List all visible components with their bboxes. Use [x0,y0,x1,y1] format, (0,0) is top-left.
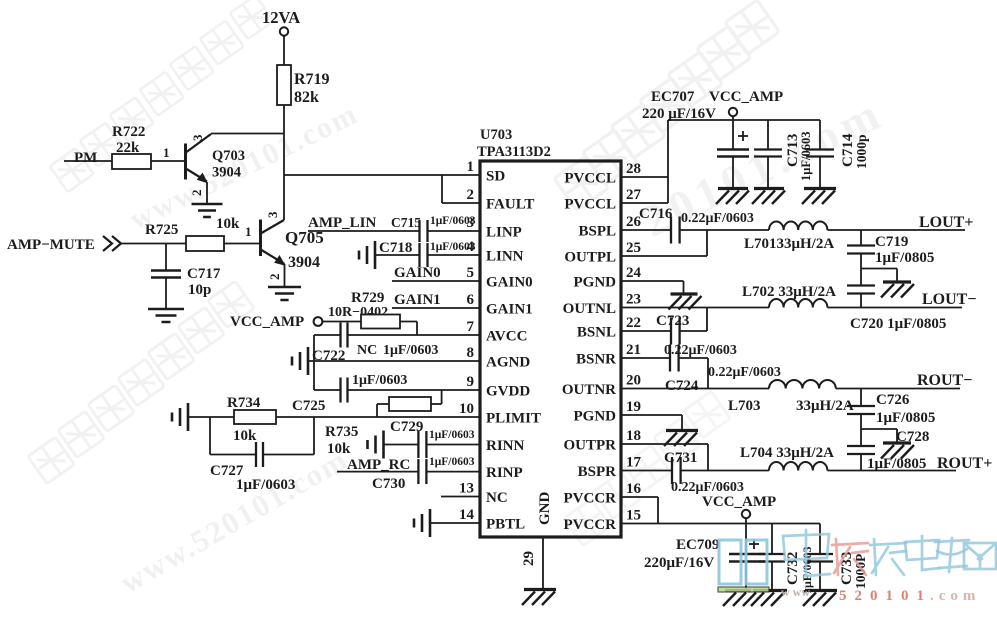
svg-text:VCC_AMP: VCC_AMP [702,494,776,510]
svg-text:C726: C726 [876,392,910,408]
svg-text:PVCCL: PVCCL [564,171,616,187]
svg-text:ROUT−: ROUT− [917,372,972,389]
svg-text:AGND: AGND [486,355,530,371]
svg-text:EC709: EC709 [676,537,719,553]
wire PM to R722 [64,160,112,162]
svg-text:25: 25 [626,240,641,256]
wire BSPL stub [621,229,671,231]
ground pin 29 [522,590,556,606]
wire C729 to RINN [426,444,480,446]
wire R735 right lead [431,403,442,405]
wire R735 left lead [377,404,389,417]
svg-text:PVCCL: PVCCL [564,197,616,213]
wire AMP-MUTE to C717 [165,244,167,271]
wire Q705 emitter to ground [284,264,286,287]
svg-text:1μF/0805: 1μF/0805 [876,410,935,426]
wire AMP_RC to C730 [337,471,418,473]
U703 left pin names [486,169,541,533]
svg-text:GAIN0: GAIN0 [486,275,533,291]
svg-text:0.22μF/0603: 0.22μF/0603 [708,365,781,380]
capacitor C715 [420,220,428,242]
ground C719 C720 [881,282,914,298]
wire collector node to SD [284,174,480,176]
svg-text:28: 28 [626,161,641,177]
svg-text:AMP_RC: AMP_RC [347,457,410,473]
resistor R734 [234,410,276,424]
capacitor C723 [671,318,680,345]
resistor R729 [361,315,400,329]
svg-text:ROUT+: ROUT+ [937,455,992,472]
ground C718 [359,241,375,269]
wire VCC_AMP to R729 [323,321,362,323]
wire C731 to OUTPR [681,470,708,472]
wire BSNR stub [621,357,670,359]
wire Q703 collector [211,133,284,135]
capacitor C724 [670,345,679,372]
svg-text:R734: R734 [227,395,261,411]
svg-text:R725: R725 [145,222,178,238]
wire PBTL [430,522,480,524]
resistor R722 [112,154,151,169]
svg-text:R722: R722 [112,124,145,140]
svg-text:0.22μF/0603: 0.22μF/0603 [671,480,744,495]
wire pin 29 GND [542,537,544,589]
svg-text:PGND: PGND [574,409,617,425]
wire OUTPR stub [621,444,708,471]
ground EC709 [723,591,756,607]
svg-text:13: 13 [459,481,474,497]
ground PLIMIT divider [172,403,188,431]
svg-text:GVDD: GVDD [486,384,530,400]
svg-text:1μF/0603: 1μF/0603 [352,373,407,388]
capacitor C716 [671,217,680,244]
wire C730 to RINP [426,471,480,473]
svg-text:RINP: RINP [486,465,523,481]
svg-text:0.22μF/0603: 0.22μF/0603 [681,211,754,226]
U703 right pin numbers [626,161,642,524]
svg-text:1: 1 [467,159,475,175]
wire left rail [313,335,315,390]
svg-text:w ww: w ww [781,585,810,599]
wire C728 to ROUT+ [860,454,862,471]
wire BSPR stub [621,470,672,472]
svg-text:AMP−MUTE: AMP−MUTE [7,237,95,253]
svg-text:1μF/0603: 1μF/0603 [430,241,476,253]
wire OUTPL to L701 [707,229,769,231]
svg-text:2: 2 [189,190,204,197]
svg-text:C717: C717 [187,266,221,282]
svg-text:22: 22 [626,315,641,331]
ground C733 [803,591,837,607]
resistor R719 [277,65,291,105]
wire BSNL stub [621,330,671,332]
capacitor C731 [672,457,681,484]
svg-text:1μF/0603: 1μF/0603 [383,343,438,358]
capacitor C720 [847,286,875,294]
svg-text:.com: .com [930,588,980,604]
svg-text:2: 2 [267,274,282,281]
wire rail to C722 [314,334,341,336]
wire rail to C713 [767,120,769,149]
ground PBTL [414,509,430,537]
wire GAIN0 [392,280,480,282]
svg-text:C730: C730 [372,476,405,492]
capacitor C717 [151,271,181,278]
wire PGND 24 [621,281,684,293]
wire AMP-MUTE to R725 [120,243,186,245]
transistor Q705 [261,220,285,266]
svg-text:GAIN1: GAIN1 [394,292,441,308]
wire rail to EC707 [732,120,734,149]
wire VCC_AMP terminal stub [732,116,734,120]
ground C729 [368,431,384,459]
capacitor C719 [847,246,875,254]
svg-text:SD: SD [486,169,505,185]
svg-text:LINN: LINN [486,249,524,265]
svg-text:PLIMIT: PLIMIT [486,411,541,427]
svg-text:OUTPR: OUTPR [564,438,617,454]
capacitor C718 [420,243,428,267]
wire C720 to LOUT- [860,294,862,309]
wire AGND [308,360,480,362]
svg-text:33μH/2A: 33μH/2A [796,398,854,414]
wire C727 branch [210,417,314,455]
capacitor C732 [759,554,785,562]
svg-text:L704 33μH/2A: L704 33μH/2A [740,445,834,461]
svg-text:27: 27 [626,187,642,203]
wire Q703 emitter to ground [206,182,208,204]
svg-text:OUTNR: OUTNR [562,382,616,398]
svg-text:PVCCR: PVCCR [564,491,617,507]
svg-text:1μF/0603: 1μF/0603 [429,429,475,441]
svg-text:BSNL: BSNL [577,325,616,341]
svg-text:14: 14 [459,507,475,523]
svg-text:220μF/16V: 220μF/16V [644,555,714,571]
svg-text:5: 5 [467,265,475,281]
U703 right pin names [562,171,616,534]
wire mid node to ground L [861,269,897,282]
node VCC_AMP left terminal [314,317,323,326]
svg-text:21: 21 [626,342,641,358]
capacitor C730 [418,459,426,484]
svg-text:PGND: PGND [574,275,617,291]
svg-text:C719: C719 [875,234,908,250]
svg-text:GAIN0: GAIN0 [394,265,441,281]
svg-text:7: 7 [467,319,475,335]
wire C715 to LINP [428,230,481,232]
wire C726 to mid node R [860,414,862,446]
svg-text:BSPL: BSPL [578,224,616,240]
ground Q705 emitter [268,287,301,300]
wire L701 to LOUT+ [827,229,965,231]
ground C717 [148,309,184,322]
svg-text:10k: 10k [216,216,240,232]
wire LOUT+ to C719 [860,230,862,246]
svg-text:23: 23 [626,292,641,308]
node VCC_AMP bottom terminal [742,510,750,518]
svg-text:6: 6 [467,292,475,308]
svg-text:0.22μF/0603: 0.22μF/0603 [664,343,737,358]
inductor L701 [769,222,827,230]
wire C714 to ground [819,157,821,189]
svg-text:PVCCR: PVCCR [564,517,617,533]
svg-text:VCC_AMP: VCC_AMP [709,89,783,105]
wire C722 to AVCC line [348,334,418,336]
wire pin 13 NC stub [441,496,480,498]
svg-text:3: 3 [265,211,280,218]
wire L704 to ROUT+ [827,470,956,472]
node VCC_AMP top terminal [729,108,737,116]
wire C719 to mid node [860,254,862,286]
wire EC707 to ground [732,157,734,189]
svg-text:GND: GND [537,492,553,526]
U703 left pin numbers [459,159,475,523]
svg-text:12VA: 12VA [262,8,300,27]
capacitor C725 [341,378,348,403]
svg-text:R729: R729 [351,290,384,306]
svg-text:24: 24 [626,265,642,281]
svg-text:C728: C728 [896,429,929,445]
node 12VA terminal [280,27,288,35]
svg-text:220 μF/16V: 220 μF/16V [642,106,716,122]
transistor Q703 [186,134,212,183]
svg-text:3904: 3904 [212,165,241,181]
svg-text:TPA3113D2: TPA3113D2 [477,144,551,160]
wire AMP_LIN to C715 [308,230,420,232]
resistor R725 [186,236,224,251]
inductor L703 [769,380,836,389]
svg-text:3904: 3904 [288,254,320,271]
svg-text:1: 1 [163,145,170,160]
wire R722 to Q703 base [151,160,184,162]
wire C733 to ground [819,562,821,591]
wire R729 to AVCC [400,322,480,336]
capacitor C728 [847,446,875,454]
svg-text:GAIN1: GAIN1 [486,302,533,318]
capacitor C714 [806,150,834,157]
svg-text:C720 1μF/0805: C720 1μF/0805 [850,316,946,332]
ground Q703 emitter [192,204,223,217]
capacitor C726 [847,406,875,414]
svg-text:18: 18 [626,428,641,444]
svg-text:AVCC: AVCC [486,329,527,345]
svg-text:U703: U703 [480,127,512,143]
svg-text:L703: L703 [728,398,761,414]
wire R725 to Q705 base [224,243,259,245]
svg-text:C715: C715 [391,215,421,230]
svg-text:82k: 82k [294,89,319,106]
svg-text:19: 19 [626,399,641,415]
op-amp U703 TPA3113D2 body [480,161,621,537]
wire PLIMIT long line [188,416,480,418]
wire ground to C718 [375,254,420,256]
wire OUTNL to L702 [621,307,769,309]
wire VCC rail top [668,119,820,121]
svg-text:1μF/0603: 1μF/0603 [429,456,475,468]
wire PVCCR tie [621,497,658,524]
svg-text:PBTL: PBTL [486,517,525,533]
wire GVDD to R735 node [441,390,443,404]
capacitor C729 [418,431,426,458]
ground C714 [802,189,836,205]
svg-text:RINN: RINN [486,438,525,454]
ground PGND 24 [669,294,702,310]
wire GAIN1 [392,307,480,309]
svg-text:3: 3 [190,134,205,141]
svg-text:AMP_LIN: AMP_LIN [308,215,376,231]
wire L703 to ROUT- [836,388,960,390]
ground PGND 19 [664,431,698,447]
svg-text:LOUT−: LOUT− [922,291,976,308]
wire 12VA to R719 [283,36,285,65]
svg-text:520101: 520101 [839,588,932,604]
wire VCC rail bottom [621,523,820,525]
svg-text:BSNR: BSNR [576,352,616,368]
ground AGND [292,347,308,375]
svg-text:FAULT: FAULT [486,197,534,213]
ground C732 [751,591,787,607]
svg-text:OUTPL: OUTPL [564,250,616,266]
wire mid node R to ground [861,429,897,442]
svg-text:10p: 10p [188,282,211,298]
svg-text:1000p: 1000p [854,134,869,169]
svg-text:C725: C725 [292,398,325,414]
capacitor C713 [754,150,782,157]
svg-text:15: 15 [626,508,641,524]
svg-text:1μF/0603: 1μF/0603 [430,215,476,227]
svg-text:1μF/0603: 1μF/0603 [236,477,295,493]
inductor L702 [769,299,827,308]
svg-text:BSPR: BSPR [578,464,617,480]
inductor L704 [769,462,827,471]
svg-text:VCC_AMP: VCC_AMP [230,314,304,330]
resistor R735 [389,397,431,411]
svg-text:R719: R719 [294,71,330,88]
svg-text:9: 9 [467,374,475,390]
wire L702 to LOUT- [827,307,962,309]
wire OUTPR to L704 [708,470,769,472]
wire PVCCL tie [621,120,668,203]
svg-text:10k: 10k [233,428,257,444]
svg-text:LINP: LINP [486,225,522,241]
wire VCC_AMP bottom stub [745,518,747,523]
wire C724 to OUTNR [679,358,708,389]
wire R719 to collector node [283,105,285,220]
chevron AMP-MUTE input [103,236,121,251]
wire pin1 pin2 tie [442,175,480,203]
wire rail to C732 [771,524,773,555]
wire C718 to LINN [428,254,481,256]
svg-text:OUTNL: OUTNL [563,301,616,317]
svg-text:C724: C724 [665,378,699,394]
wire C725 to GVDD [348,389,481,391]
capacitor C727 [256,442,263,467]
wire C716 to OUTPL node [680,229,707,231]
wire C723 to OUTNL [680,308,707,332]
capacitor C722 [341,323,348,348]
svg-text:C716: C716 [639,206,673,222]
svg-text:R735: R735 [325,424,358,440]
svg-text:C723: C723 [656,313,689,329]
svg-text:NC: NC [357,343,377,358]
ground EC707 [716,189,749,205]
svg-text:16: 16 [626,481,642,497]
svg-text:Q703: Q703 [212,148,245,164]
wire C717 to ground [165,278,167,310]
svg-text:10k: 10k [327,441,351,457]
wire OUTPL stub [621,230,707,256]
wire rail to C714 [819,120,821,149]
svg-text:C732: C732 [785,552,801,585]
svg-text:L70133μH/2A: L70133μH/2A [744,236,834,252]
capacitor EC709 polarized [729,539,765,562]
svg-text:1: 1 [245,224,252,239]
svg-text:LOUT+: LOUT+ [919,214,973,231]
ground C726 C728 [881,443,914,459]
svg-text:2: 2 [467,187,475,203]
wire rail to C733 [819,524,821,555]
wire rail to C725 [314,389,341,391]
wire EC709 to ground [745,562,747,591]
capacitor EC707 polarized [717,131,749,157]
svg-text:C718: C718 [379,240,412,256]
capacitor C733 [807,554,833,562]
svg-text:20: 20 [626,373,641,389]
ground C713 [752,189,785,205]
svg-text:22k: 22k [116,140,140,156]
svg-text:PM: PM [74,150,97,166]
wire ROUT- to C726 [860,389,862,407]
svg-text:29: 29 [521,551,537,566]
svg-text:L702 33μH/2A: L702 33μH/2A [742,284,836,300]
wire rail to EC709 [745,524,747,555]
wire C713 to ground [767,157,769,189]
svg-text:8: 8 [467,345,475,361]
svg-text:1μF/0805: 1μF/0805 [875,250,934,266]
wire ground to C729 [384,444,419,446]
svg-text:NC: NC [486,490,508,506]
svg-text:17: 17 [626,455,642,471]
wire PGND 19 [621,415,682,430]
svg-text:EC707: EC707 [651,89,695,105]
svg-text:C731: C731 [664,450,697,466]
wire OUTNR to L703 [621,388,769,390]
svg-text:10: 10 [459,401,474,417]
wire C732 to ground [771,562,773,591]
